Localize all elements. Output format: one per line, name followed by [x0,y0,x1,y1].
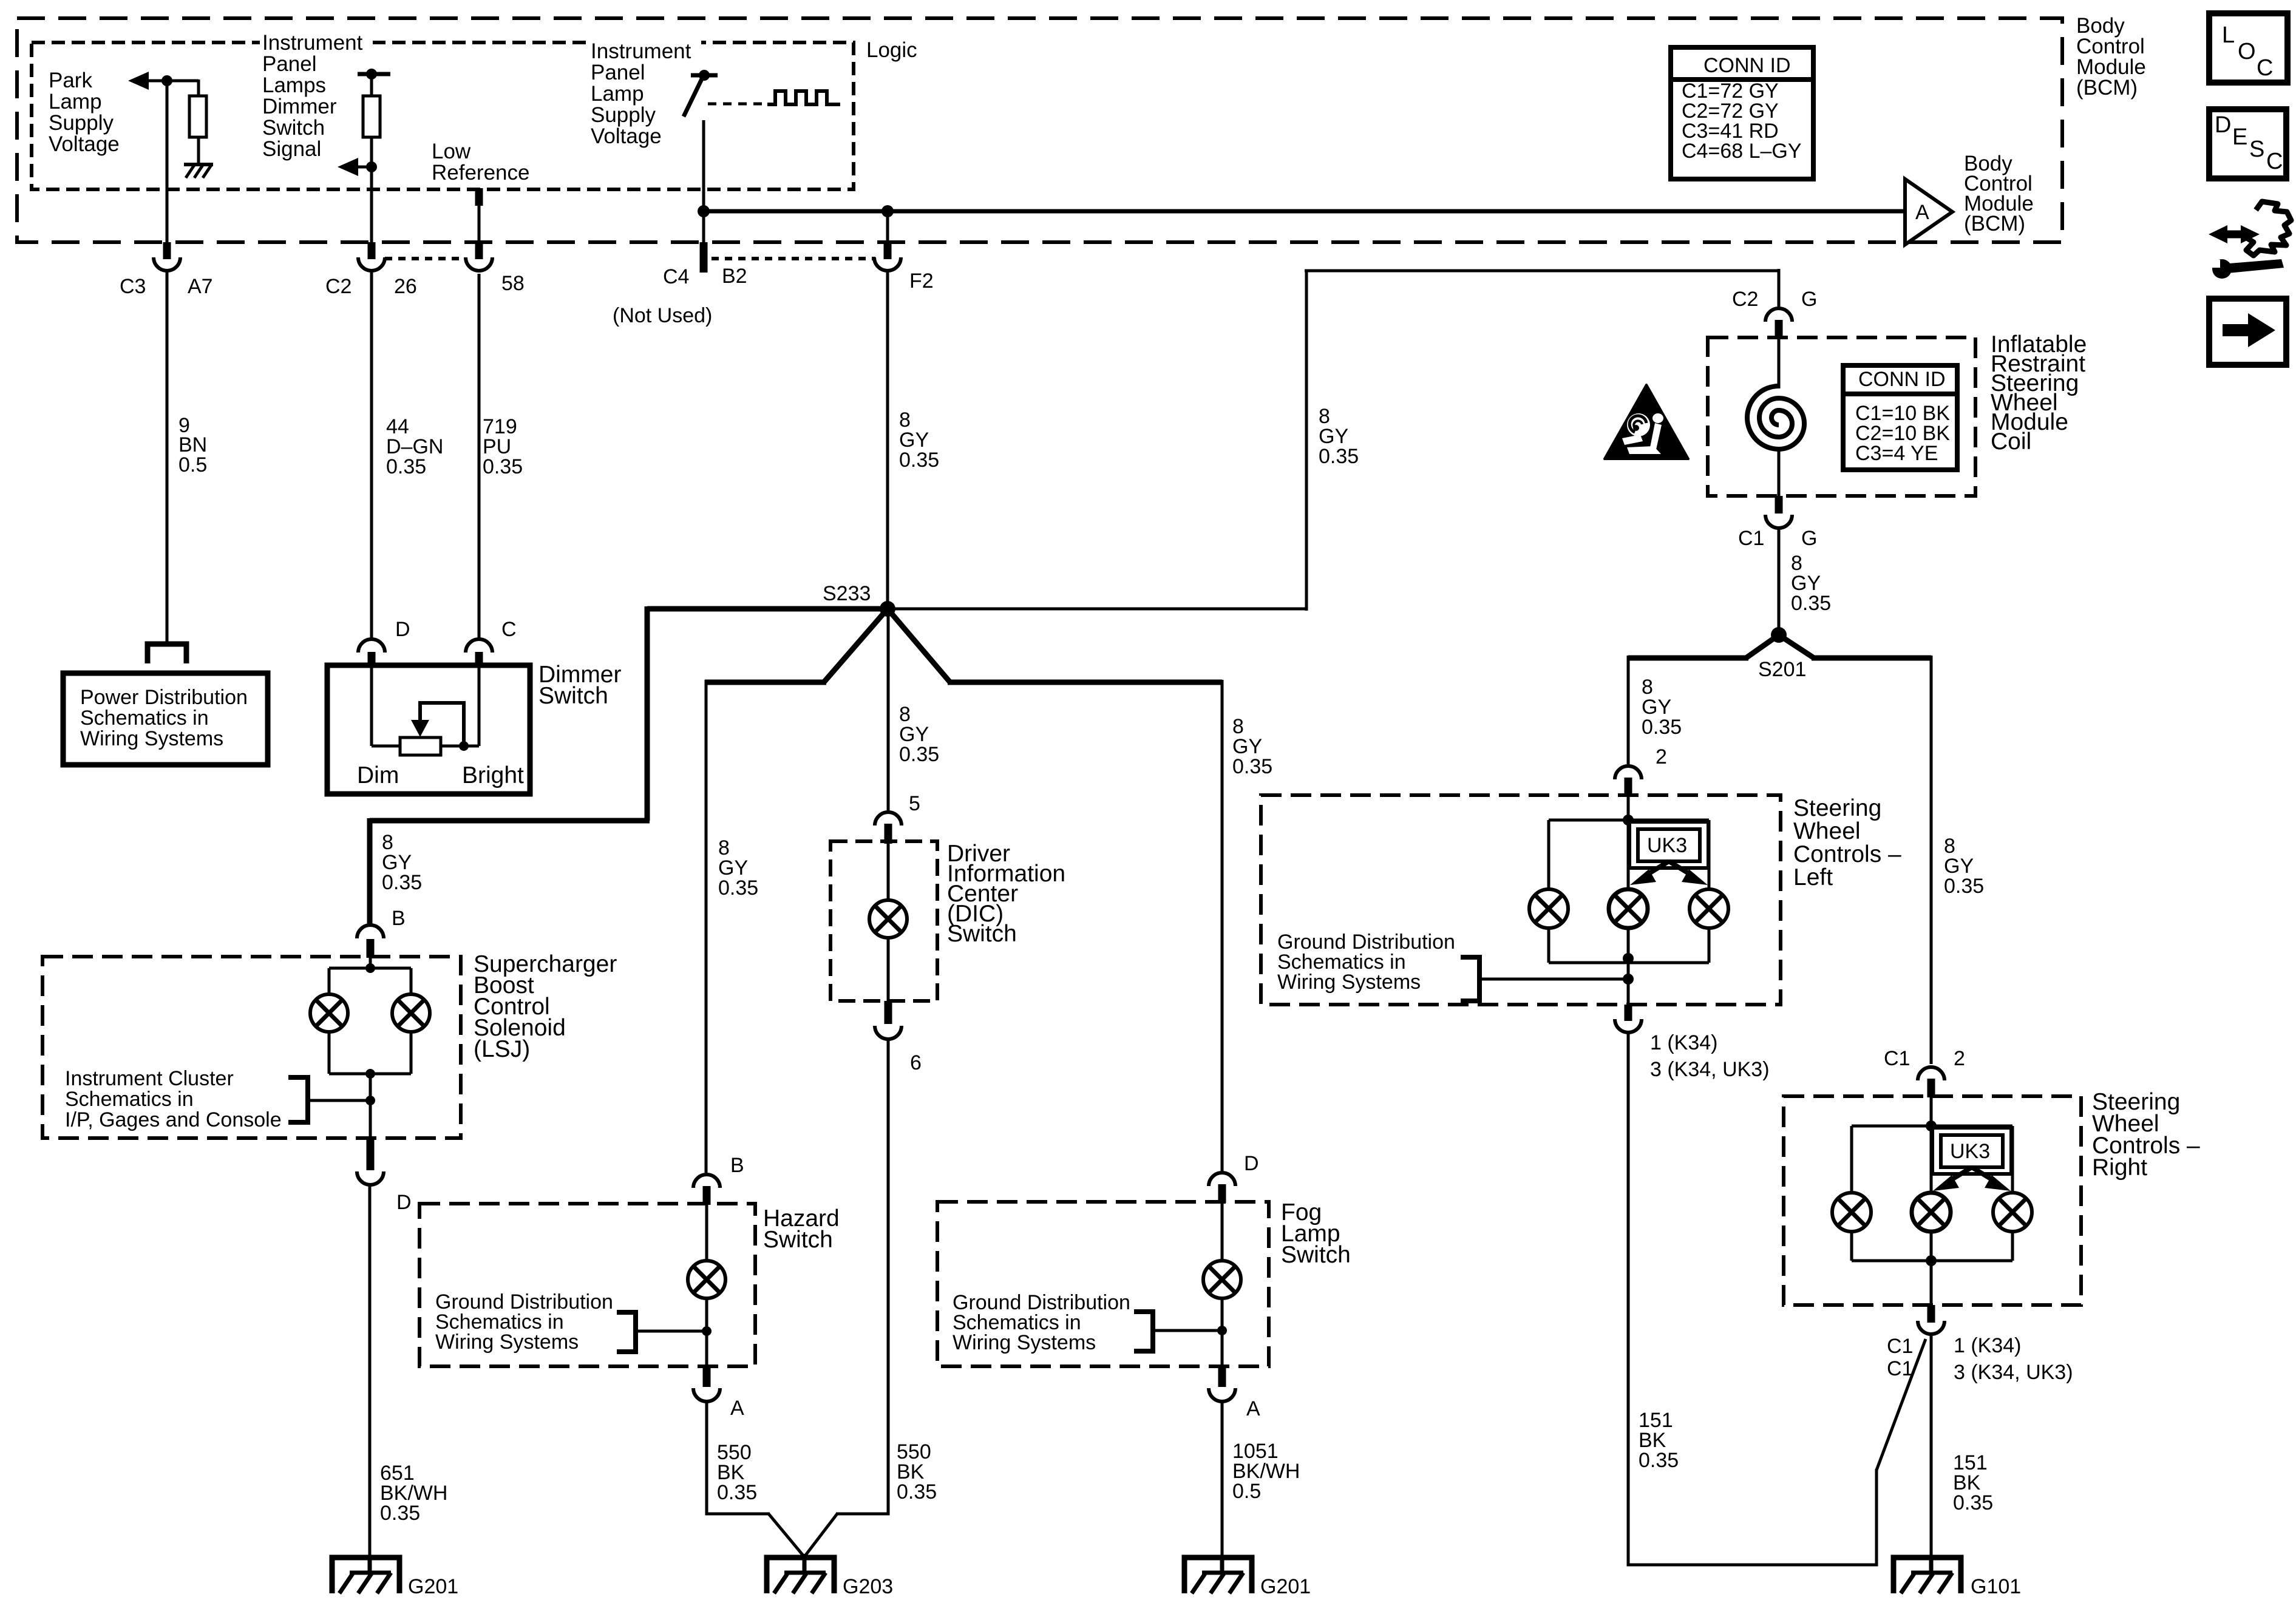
lamp left box 3 [1690,889,1728,928]
stub low reference pin at logic box [475,188,483,206]
node hazard ground tap [702,1326,712,1336]
Steering Wheel Controls Right dashed box [1784,1096,2081,1305]
wire left box right leg lower [1708,928,1711,963]
svg-text:G: G [1801,288,1817,311]
warning triangle airbag [1605,385,1688,459]
ground G201 right [1184,1556,1252,1593]
svg-text:G: G [1801,527,1817,550]
svg-text:S: S [2249,137,2264,162]
connector C2/26 arc [358,257,385,271]
svg-text:0.35: 0.35 [899,743,939,766]
wire 2 into left box [1627,795,1630,821]
wire left box left leg lower [1547,928,1550,963]
svg-text:B: B [730,1154,744,1177]
wire coil feed horizontal [1305,269,1779,273]
wire DIC diagonal to G203 [806,1514,837,1555]
wire fog branch horizontal [948,680,1222,685]
svg-text:C1: C1 [1884,1047,1910,1070]
wire resistor down to connector 26 [370,137,373,242]
connector C1 right exit stub [1927,1305,1935,1323]
connector D fog stub [1218,1184,1226,1203]
svg-text:L: L [2222,22,2235,48]
connector C3/A7 stub [163,242,171,259]
wire right box left leg lower [1850,1232,1853,1261]
wire hazard branch vertical [705,680,708,1173]
lamp DIC [869,900,907,938]
CONN ID coil separator [1843,392,1957,396]
svg-text:(BCM): (BCM) [1964,212,2025,236]
svg-text:0.35: 0.35 [483,455,523,478]
wire 8 GY F2 to S233 [886,273,889,609]
node fog ground tap [1217,1326,1227,1335]
svg-text:D: D [396,1191,412,1214]
potentiometer body [400,737,441,755]
wire coil feed drop to C2 [1778,269,1781,307]
wire solenoid left leg lower [328,1032,331,1074]
wire bracket to wire [308,1099,370,1102]
wire hazard bracket link [636,1330,707,1333]
connector B supercharger arc [357,925,384,938]
connector C2 coil arc [1765,308,1792,322]
Logic inner dashed box [32,42,854,189]
connector D dimmer stub [368,652,376,666]
svg-text:A: A [730,1397,744,1420]
svg-text:C4=68 L–GY: C4=68 L–GY [1682,140,1802,163]
svg-text:Switch: Switch [538,683,608,709]
wire dimmer C internal [478,665,481,746]
arrow left on park lamp supply [128,72,149,90]
connector D dimmer arc [358,639,385,653]
wire S233 left trunk horizontal [647,606,888,612]
wire coil to S201 [1778,529,1781,635]
svg-text:C3=4 YE: C3=4 YE [1855,442,1938,465]
wire left box left leg upper [1547,820,1550,890]
Steering Wheel Controls Left dashed box [1261,795,1781,1005]
wire right box right leg upper [2011,1126,2014,1193]
connector 5 DIC arc [875,812,902,825]
connector C dimmer stub [475,652,483,666]
svg-text:Voltage: Voltage [591,124,662,148]
wire F2 drop inside BCM [886,211,889,242]
svg-text:Dimmer: Dimmer [262,95,337,118]
svg-text:S233: S233 [823,582,871,605]
wire S233 down to DIC 5 [887,609,890,810]
connector C3/A7 arc [154,257,180,271]
connector A fog stub [1218,1366,1226,1387]
CONN ID table coil [1843,365,1957,470]
connector C1 coil stub [1775,496,1783,514]
wire hazard branch horizontal [705,680,826,685]
wire right box mid leg lower [1930,1232,1933,1305]
wire solenoid right leg upper [410,968,413,994]
wire S201 right horizontal [1812,656,1931,661]
wire arrow stub [357,166,372,169]
CONN ID table BCM [1671,47,1813,179]
svg-text:Park: Park [49,69,92,92]
svg-text:D: D [2215,112,2231,138]
svg-text:B2: B2 [722,265,747,288]
wire 151 BK right to ground [1930,1336,1933,1559]
dashed logic control line [708,103,767,106]
svg-text:Dim: Dim [357,762,399,788]
underlay instrument label 2 [588,39,701,59]
connector B hazard arc [693,1175,720,1188]
terminal bar C2 column top [358,72,390,76]
UK3 arrows right [1933,1167,2011,1191]
svg-text:Low: Low [432,140,471,163]
svg-text:Wiring Systems: Wiring Systems [953,1331,1096,1354]
wire right box top rail [1852,1125,2012,1128]
connector D fog arc [1209,1173,1235,1186]
node wiper junction [459,741,469,751]
svg-text:C3: C3 [120,275,146,298]
wire C4 column down [702,120,705,211]
connector C dimmer arc [466,639,492,653]
lamp left box 1 [1529,889,1568,928]
connector A hazard arc [693,1388,720,1402]
resistor R-dimmer (pull-up) [363,96,380,137]
svg-text:3 (K34, UK3): 3 (K34, UK3) [1954,1361,2073,1384]
svg-text:Schematics in: Schematics in [65,1088,194,1111]
wire B into solenoid [369,957,372,969]
svg-text:A7: A7 [188,275,213,298]
svg-text:0.35: 0.35 [1953,1491,1993,1514]
svg-text:5: 5 [909,792,920,815]
wire BCM bus to A triangle [704,209,1904,214]
svg-text:Switch: Switch [262,116,325,140]
svg-text:G201: G201 [408,1575,458,1598]
svg-text:Instrument: Instrument [591,39,691,63]
svg-text:E: E [2232,124,2247,150]
svg-text:A: A [1915,201,1929,224]
wire coil feed vertical up [1305,271,1308,611]
node instrument cluster tap [365,1096,375,1105]
connector C4/B2 stub (not used) [700,242,708,273]
svg-text:0.35: 0.35 [1642,716,1682,739]
wire S201 right drop to C1 [1930,656,1933,1064]
Dimmer Switch box [327,665,530,794]
Supercharger Boost Control Solenoid dashed box [42,957,461,1138]
node junction A7 top [161,75,172,86]
icon DESC box [2209,109,2286,178]
ground G201 left [332,1556,399,1593]
wire A7 vertical inside BCM [166,81,169,242]
dotted connector link 26-58 [385,257,464,260]
svg-text:Controls –: Controls – [1793,841,1901,867]
lamp hazard [688,1261,725,1298]
node C2 column top [366,69,377,80]
svg-text:Reference: Reference [432,161,529,185]
node right box merge [1926,1255,1937,1266]
connector 2 left steering stub [1625,778,1632,796]
wire S201 left horizontal [1628,656,1748,661]
connector 1 left steering arc [1615,1019,1642,1032]
svg-text:Steering: Steering [1793,795,1881,821]
resistor R-park (pull-up) [189,96,206,137]
lamp fog [1203,1261,1241,1298]
wire solenoid left leg upper [328,968,331,994]
wire right box bottom rail [1852,1259,2012,1263]
wire top bar to resistor [370,74,373,97]
connector 58 stub [475,242,483,259]
wire solenoid top rail [329,967,411,970]
svg-text:Signal: Signal [262,137,321,161]
wire 44 D-GN circuit [370,273,373,638]
wire 151 BK diagonal to C1 [1877,1339,1926,1470]
wire solenoid right leg lower [410,1032,413,1074]
svg-text:0.35: 0.35 [1791,592,1831,615]
connector 6 DIC arc [875,1026,902,1039]
wire pot to C leg [441,745,479,748]
node solenoid top split [365,963,375,973]
svg-text:CONN ID: CONN ID [1703,54,1791,77]
svg-text:Lamps: Lamps [262,73,326,97]
svg-text:2: 2 [1656,745,1667,768]
wire dimmer D internal [370,665,373,746]
Hazard Switch dashed box [419,1204,755,1366]
svg-text:Wiring Systems: Wiring Systems [80,727,223,750]
svg-text:0.35: 0.35 [718,876,758,900]
wire S233 diagonal to hazard branch [824,609,888,682]
connector A hazard stub [703,1366,711,1387]
svg-text:F2: F2 [909,269,934,293]
lamp solenoid left [310,994,348,1032]
connector 6 DIC stub [885,1001,892,1024]
svg-text:Right: Right [2092,1154,2147,1181]
connector B hazard stub [703,1186,711,1205]
wire left box right leg upper [1708,820,1711,890]
svg-text:Left: Left [1793,864,1833,890]
wire S233 trunk down to supercharger B [367,818,373,926]
svg-text:I/P, Gages and Console: I/P, Gages and Console [65,1108,282,1131]
svg-text:G201: G201 [1260,1575,1311,1598]
square wave pulse symbol [767,91,840,104]
svg-text:0.35: 0.35 [1639,1449,1679,1472]
svg-text:(BCM): (BCM) [2076,76,2138,100]
node right box split [1926,1120,1937,1131]
svg-text:Wheel: Wheel [1793,818,1861,844]
connector C1/2 right steering arc [1918,1067,1944,1080]
wire low reference to BCM edge [478,206,481,242]
UK3 outer box right [1932,1128,2011,1174]
svg-text:0.35: 0.35 [899,449,939,472]
connector 58 arc [466,257,492,271]
svg-text:0.5: 0.5 [178,453,207,476]
icon double arrow [2209,225,2260,243]
wire into coil [1778,337,1781,388]
svg-text:C2: C2 [325,275,352,298]
svg-text:UK3: UK3 [1950,1140,1990,1163]
svg-text:0.35: 0.35 [1944,875,1984,898]
svg-text:Wiring Systems: Wiring Systems [435,1331,579,1354]
Body Control Module (BCM) outer dashed box [17,18,2062,242]
connector F2 stub [884,242,892,259]
connector D supercharger arc [357,1171,384,1185]
svg-text:Lamp: Lamp [591,82,644,106]
wire C1 into right box [1930,1096,1933,1126]
wire 550 BK DIC to ground [836,1039,888,1514]
svg-text:D: D [1244,1152,1259,1175]
wire 719 PU circuit [478,274,481,638]
icon arrow box [2209,299,2286,365]
svg-text:2: 2 [1954,1047,1965,1070]
wire 151 BK left steering down [1628,1034,1877,1565]
svg-text:Instrument Cluster: Instrument Cluster [65,1067,234,1090]
svg-text:S201: S201 [1758,658,1806,681]
svg-text:26: 26 [394,275,417,298]
svg-text:(Not Used): (Not Used) [613,304,712,327]
svg-text:D: D [395,618,410,641]
svg-text:0.5: 0.5 [1232,1480,1261,1503]
svg-text:Coil: Coil [1991,429,2031,455]
svg-text:C: C [2266,149,2283,174]
svg-text:6: 6 [910,1051,922,1074]
svg-text:O: O [2238,39,2256,64]
wire left box mid leg upper [1627,820,1630,890]
svg-text:Lamp: Lamp [49,90,102,114]
icon hand outline [2246,202,2291,256]
wire S233 left trunk horizontal 2 [370,818,650,824]
wire DIC internal [887,841,890,1001]
svg-text:Bright: Bright [462,762,524,788]
wire S233 left trunk vertical [645,606,650,821]
connector D supercharger stub [367,1138,375,1170]
svg-text:G203: G203 [843,1575,893,1598]
wiper arm path [420,703,464,746]
connector B supercharger stub [367,939,375,958]
svg-text:CONN ID: CONN ID [1858,368,1946,391]
svg-text:Switch: Switch [947,921,1017,947]
lamp left box 2 [1609,889,1648,928]
switch blade C4 logic [684,76,703,117]
node left box ground tap [1623,974,1634,985]
connector F2 arc [874,257,901,271]
svg-text:0.35: 0.35 [386,455,426,478]
wire 9 BN 0.5 circuit [166,273,169,644]
terminal bar C4 column top [691,73,718,78]
svg-text:C4: C4 [663,265,689,288]
wire solenoid out [369,1074,372,1138]
Driver Information Center dashed box [830,841,937,1001]
svg-text:C: C [501,618,517,641]
wire fog internal [1221,1202,1224,1366]
wire S201 left drop to 2 [1627,656,1630,764]
svg-text:C2: C2 [1732,288,1758,311]
lamp right box 3 [1993,1193,2032,1232]
bracket fog ground reference [1134,1312,1153,1351]
svg-text:C1: C1 [1887,1335,1913,1358]
connector C1 right exit arc [1918,1321,1944,1334]
icon wrench [2212,259,2284,279]
svg-text:UK3: UK3 [1647,834,1687,857]
connector C2/26 stub [368,242,376,259]
bracket hazard ground reference [617,1312,636,1352]
node left box split [1623,815,1634,825]
UK3 arrows left [1630,861,1708,885]
connector 1 left steering stub [1625,1005,1632,1021]
splice S201 [1771,627,1787,643]
svg-text:Instrument: Instrument [262,31,363,55]
wire 550 BK hazard to ground [707,1402,770,1514]
wire S233 right to coil feed [888,608,1306,611]
wire right box mid leg upper [1930,1126,1933,1193]
connector C1 coil arc [1765,515,1792,528]
wire right box right leg lower [2011,1232,2014,1261]
wire arrow to resistor R1 [148,80,199,83]
svg-text:Power Distribution: Power Distribution [80,686,248,709]
svg-text:Supply: Supply [591,103,656,127]
wire S201 right leg diagonal [1779,635,1814,658]
UK3 outer box left [1629,822,1708,868]
svg-text:Switch: Switch [763,1227,833,1253]
node solenoid bottom merge [365,1069,375,1079]
wiper arrowhead [411,720,429,737]
wire left box top rail [1549,819,1709,822]
svg-text:C1: C1 [1738,527,1764,550]
svg-text:G101: G101 [1971,1575,2021,1598]
svg-text:C1: C1 [1887,1357,1913,1380]
terminal bracket to power distribution [148,644,186,663]
svg-text:0.35: 0.35 [717,1481,757,1504]
coil spiral [1747,386,1804,449]
connector C2 coil stub [1775,320,1783,339]
svg-text:Logic: Logic [866,38,917,62]
ground G101 [1894,1556,1961,1593]
node dimmer signal junction [366,161,377,172]
svg-text:0.35: 0.35 [897,1480,937,1503]
wire fog branch vertical [1221,680,1224,1171]
dotted connector link B2-F2 [712,257,875,260]
wire 651 BK/WH to ground [369,1185,372,1559]
Power Distribution reference box [63,673,268,765]
bracket instrument cluster reference [288,1077,308,1122]
svg-text:0.35: 0.35 [382,871,422,894]
node C4 on bus [698,205,710,217]
wire right box left leg upper [1850,1126,1853,1193]
wire C4 stub below bus [702,211,705,242]
svg-text:(LSJ): (LSJ) [474,1036,530,1062]
svg-text:B: B [392,907,406,930]
triangle A (BCM output) [1905,179,1952,245]
connector 5 DIC stub [885,824,892,844]
svg-text:A: A [1246,1397,1260,1420]
svg-text:Supply: Supply [49,111,114,135]
wire left box bottom rail [1549,961,1709,964]
node F2 branch on bus [881,205,894,217]
wire 1051 BK/WH to ground [1221,1402,1224,1559]
lamp right box 1 [1832,1193,1871,1232]
lamp right box 2 [1912,1193,1951,1232]
connector A fog arc [1209,1388,1235,1402]
svg-text:Panel: Panel [262,52,317,76]
svg-text:58: 58 [501,272,525,295]
wire fog bracket link [1153,1329,1222,1332]
connector C1/2 right steering stub [1927,1079,1935,1097]
wire hazard diagonal to G203 [769,1514,804,1557]
ground G203 [767,1554,834,1593]
CONN ID header separator [1671,77,1813,82]
Fog Lamp Switch dashed box [937,1202,1269,1366]
svg-text:3 (K34, UK3): 3 (K34, UK3) [1650,1058,1770,1081]
svg-text:Switch: Switch [1281,1242,1351,1268]
svg-text:1 (K34): 1 (K34) [1954,1334,2022,1357]
wire S201 left leg diagonal [1746,635,1779,658]
svg-text:Schematics in: Schematics in [80,707,209,730]
svg-text:0.35: 0.35 [1319,445,1359,468]
bracket left steering ground reference [1461,957,1479,1001]
wire out of coil [1778,449,1781,496]
node left box merge [1623,953,1634,964]
